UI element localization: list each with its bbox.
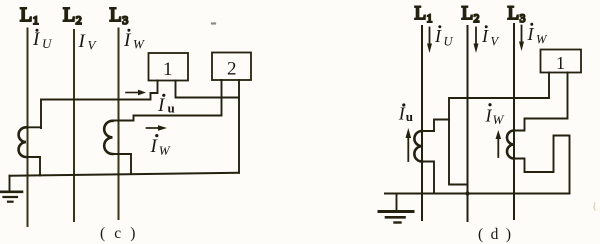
label I_u (c) [157,94,175,116]
svg-text:I: I [481,26,489,46]
ground symbol (c) bar2 [4,196,18,198]
svg-text:u: u [406,109,413,124]
current arrow I_W (c) [147,127,160,129]
ground symbol (d) bar3 [395,221,401,223]
meter box 1 (c) [149,53,189,81]
wire box2 right terminal down to bus [238,80,240,173]
svg-text:I: I [157,95,166,116]
current arrow on L3 (d) [521,26,523,42]
svg-text:( d ): ( d ) [478,226,513,243]
phase line L3 (c) [118,29,120,220]
svg-text:1: 1 [556,53,565,73]
ground symbol (c) bar1 [1,191,23,194]
current label I_W (c) [123,29,145,52]
current arrow on L2 (d) [475,28,477,44]
CT coil on L1 (c) [19,127,26,157]
current arrow I_u (d) [407,138,409,162]
wire box1 left terminal to I_u node, down and hook to L2 [449,73,549,185]
phase line L1 (c) [27,29,29,227]
svg-text:U: U [42,36,53,51]
stray mark top middle [212,22,215,24]
svg-text:W: W [159,143,171,158]
wire box2 left terminal to CT3 top [113,80,222,121]
svg-text:I: I [485,106,493,126]
meter box 2 (c) [212,53,251,81]
wire box1 right terminal to common return [176,81,240,98]
svg-text:V: V [88,38,98,53]
svg-text:L2: L2 [462,3,480,25]
ground symbol (c) bar3 [8,201,13,203]
current arrow I_u (c) [126,92,140,94]
ground bus (d) [385,193,570,195]
current arrow I_W (d) [497,139,499,158]
current arrow on L1 (d) [429,28,431,44]
CT1 top stub (c) [26,126,41,128]
svg-text:U: U [444,35,454,49]
phase line L3 (d) [513,24,515,219]
CT3 bottom stub and wire to bus (c) [113,154,132,174]
phase line L2 (d) [467,26,469,221]
ground stem (c) [9,176,11,192]
label I_W (c) [150,134,171,158]
ground bus (c) [10,173,240,176]
current label I_V (c) [78,31,98,53]
current label I_W (d) [527,23,549,47]
ground symbol (d) bar2 [386,216,405,219]
current label I_U (d) [434,25,454,48]
svg-text:L2: L2 [63,4,82,27]
label I_u (d) [398,103,413,123]
wire CT1 to box1 left terminal (I_u wire) [41,81,158,129]
CT1 bottom stub (c) [26,157,40,175]
stray mark bottom right [594,203,595,210]
CT coil on L1 (d) [414,131,422,162]
svg-text:I: I [398,104,406,124]
svg-text:V: V [491,35,500,49]
svg-text:L1: L1 [20,4,39,27]
ground symbol (d) bar1 [379,210,413,213]
current label I_U (c) [32,29,53,51]
svg-text:L3: L3 [508,3,526,25]
svg-text:2: 2 [227,59,237,80]
meter box 1 (d) [541,50,582,73]
svg-text:I: I [150,136,159,157]
svg-text:I: I [123,30,132,51]
svg-text:u: u [168,101,175,116]
CT coil on L3 (c) [104,121,112,154]
CT3 bottom zigzag wire to bus end (d) [514,136,570,194]
svg-text:W: W [536,33,548,47]
svg-text:L3: L3 [110,4,129,27]
svg-text:I: I [434,26,442,46]
phase line L2 (c) [73,30,75,221]
ground stem (d) [396,194,398,211]
svg-text:L1: L1 [415,3,433,25]
svg-text:W: W [493,112,505,127]
CT1 top staircase (d) [422,120,449,132]
CT1 bottom stub to bus (d) [422,162,434,194]
label I_W (d) [485,103,505,127]
junction dot bus-L2 (d) [465,191,469,195]
svg-text:1: 1 [163,59,173,80]
svg-text:W: W [133,37,145,52]
wire box1 right terminal to CT3 top staircase (d) [514,73,568,131]
svg-text:( c ): ( c ) [100,225,138,242]
svg-text:I: I [527,24,535,44]
svg-text:I: I [32,29,41,50]
current label I_V (d) [481,25,500,48]
svg-text:I: I [78,31,87,52]
CT coil on L3 (d) [507,131,514,159]
phase line L1 (d) [421,26,423,220]
